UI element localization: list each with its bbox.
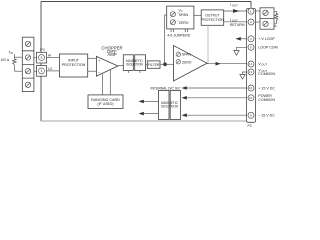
- svg-text:LOOP COM: LOOP COM: [258, 46, 277, 50]
- terminal 13: [248, 69, 254, 75]
- wire screw3 to pin 1: [34, 70, 37, 72]
- input protection box: [59, 54, 87, 77]
- svg-text:ZERO: ZERO: [179, 21, 189, 25]
- svg-text:I OUT: I OUT: [230, 3, 238, 7]
- svg-text:4-6 JUMPERS: 4-6 JUMPERS: [167, 34, 190, 38]
- svg-text:AMP: AMP: [107, 52, 116, 57]
- op-amp chopper diff amp: [96, 56, 118, 76]
- svg-text:TIN: TIN: [9, 51, 14, 56]
- wire terminal2 to screw: [256, 21, 261, 23]
- arrow on vout wire: [216, 62, 221, 66]
- terminal 9: [248, 112, 254, 118]
- screw terminal 3: [25, 69, 30, 74]
- ranging card box: [88, 95, 123, 109]
- output protection box: [201, 10, 224, 25]
- wire +15V to power isolation: [187, 87, 247, 89]
- wire row2 I OUT return: [224, 21, 247, 23]
- terminal 16: [248, 85, 254, 91]
- wire LOOP COM to ground: [237, 47, 247, 50]
- wire +V LOOP with arrow: [241, 38, 247, 40]
- op-amp demod output amp: [174, 46, 208, 82]
- wire span/zero box to output protection: [194, 15, 201, 17]
- terminal 14: [248, 61, 254, 67]
- svg-text:– 15 V DC: – 15 V DC: [258, 113, 275, 117]
- wire power common to power isolation: [187, 97, 247, 99]
- wire chopper to ranging card left: [102, 73, 104, 95]
- wire RL bottom to screw block: [274, 20, 276, 23]
- svg-text:HI: HI: [48, 54, 51, 58]
- screw terminal out 1: [263, 10, 268, 15]
- wire output protection down to vout node: [207, 25, 209, 63]
- wire input protection to chopper +: [88, 57, 97, 59]
- svg-text:PROTECTION: PROTECTION: [201, 18, 224, 22]
- svg-text:OUTPUT: OUTPUT: [205, 14, 220, 18]
- left screw terminal strip: [22, 37, 34, 91]
- svg-text:+ 15 V DC: + 15 V DC: [258, 86, 275, 90]
- isolated power out wire 1: [144, 100, 159, 102]
- svg-text:V OUT: V OUT: [258, 62, 267, 67]
- svg-text:15: 15: [249, 96, 252, 100]
- label chopper diff amp: [101, 46, 122, 58]
- zero pot: [170, 20, 188, 25]
- wire demod amp to V OUT terminal: [207, 63, 247, 65]
- svg-text:1: 1: [41, 69, 43, 73]
- svg-text:16: 16: [249, 86, 252, 90]
- svg-text:100 Ω: 100 Ω: [1, 58, 10, 62]
- wire pin1 to input protection: [47, 70, 60, 72]
- svg-text:13: 13: [249, 70, 252, 74]
- wire row1 I OUT: [224, 10, 247, 12]
- terminal 6: [248, 44, 254, 50]
- screw terminal out 2: [263, 21, 268, 26]
- screw terminal 1: [25, 41, 30, 46]
- terminal 15: [248, 95, 254, 101]
- terminal 2: [248, 19, 254, 25]
- screw terminal 2: [25, 55, 30, 60]
- svg-text:INPUT: INPUT: [68, 59, 80, 63]
- wire chopper to ranging card right: [109, 70, 111, 95]
- right outer screw block: [260, 8, 274, 29]
- arrow I OUT: [233, 9, 240, 13]
- zero pot in amp: [176, 60, 192, 65]
- svg-text:COMMON: COMMON: [258, 98, 275, 102]
- wire node up to span/zero box: [165, 15, 167, 64]
- resistor 100 ohm: [13, 59, 17, 65]
- wire screw block to RL top: [274, 11, 276, 13]
- Vo span/zero adjust box: [167, 6, 194, 29]
- svg-text:P2: P2: [248, 124, 252, 128]
- wire V OUT COMMON to ground: [243, 72, 247, 75]
- terminal 3: [248, 36, 254, 42]
- wire terminal1 to screw: [256, 10, 261, 12]
- span pot in amp: [176, 52, 191, 57]
- svg-text:SPAN: SPAN: [179, 13, 189, 17]
- magnetic isolation (power): [159, 91, 181, 120]
- wire pin3 to input protection: [47, 57, 60, 59]
- screw terminal 4: [25, 82, 30, 87]
- svg-text:I OUT: I OUT: [230, 18, 238, 22]
- svg-text:PROTECTION: PROTECTION: [62, 63, 86, 67]
- svg-text:14: 14: [249, 62, 252, 66]
- magnetic isolation (signal): [123, 55, 145, 73]
- node junction dot: [163, 62, 167, 66]
- svg-text:RETURN: RETURN: [230, 23, 245, 27]
- svg-text:+ V LOOP: + V LOOP: [258, 37, 275, 41]
- svg-text:ISOLATION: ISOLATION: [161, 104, 178, 108]
- module outline: [41, 2, 251, 122]
- source T IN node and wires: [14, 54, 23, 71]
- connector pin 1: [37, 66, 47, 77]
- span pot: [170, 12, 188, 17]
- connector pin 3: [37, 52, 47, 63]
- svg-text:SPAN: SPAN: [182, 53, 192, 57]
- wire magnetic isolation to filter: [146, 63, 148, 65]
- P2 terminal strip: [247, 9, 256, 123]
- svg-text:INTERNAL D/C S/C: INTERNAL D/C S/C: [151, 86, 182, 90]
- svg-text:3: 3: [41, 56, 43, 60]
- svg-text:ZERO: ZERO: [182, 60, 192, 64]
- wire input protection to chopper -: [88, 70, 97, 72]
- wire chopper to magnetic isolation: [118, 65, 123, 67]
- svg-text:COMMON: COMMON: [258, 72, 275, 76]
- ground vout common: [240, 75, 245, 80]
- load resistor RL: [275, 14, 278, 21]
- jumper pins: [171, 29, 188, 32]
- svg-text:(P1): (P1): [40, 48, 45, 52]
- svg-text:FILTER: FILTER: [148, 63, 160, 67]
- wire screw2 to pin 3: [34, 57, 37, 59]
- ground loop com: [234, 51, 239, 56]
- isolated power out wire 2: [144, 113, 159, 115]
- wire -15V to power isolation: [187, 114, 247, 116]
- filter box: [147, 61, 160, 68]
- terminal 1: [248, 8, 254, 14]
- svg-text:(IF USED): (IF USED): [97, 102, 113, 106]
- wire filter to demod amp: [160, 63, 174, 65]
- svg-text:ISOLATION: ISOLATION: [126, 62, 143, 66]
